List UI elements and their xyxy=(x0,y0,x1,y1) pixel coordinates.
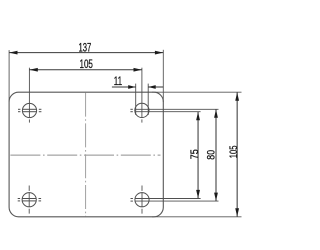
svg-text:105: 105 xyxy=(80,57,93,71)
svg-text:11: 11 xyxy=(114,74,122,88)
svg-text:75: 75 xyxy=(189,149,201,159)
svg-text:137: 137 xyxy=(79,40,92,54)
svg-text:105: 105 xyxy=(228,146,240,159)
svg-text:80: 80 xyxy=(206,150,218,160)
